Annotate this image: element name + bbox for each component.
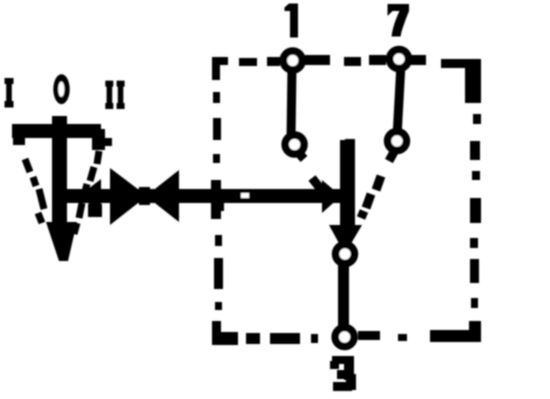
wire terminal 7 to fixed contact: [397, 64, 401, 137]
wire terminal 1 to fixed contact: [291, 66, 292, 140]
enclosure left edge dot: [213, 154, 220, 163]
lever position label I: [5, 78, 14, 108]
enclosure dash-dot box: top-left corner: [212, 57, 228, 80]
enclosure right edge dash: [470, 141, 480, 160]
contact 7 linkage dash: [376, 176, 381, 190]
lever S1 crossbar: [12, 124, 101, 138]
lever travel dashed line left: [25, 159, 44, 223]
terminal 7: [390, 50, 409, 69]
enclosure top edge dash at right corner: [441, 59, 468, 68]
lever S1 shaft: [52, 116, 67, 224]
contact 7 linkage dash: [366, 194, 371, 208]
enclosure top edge stub right of terminal 1: [305, 55, 330, 65]
enclosure left edge dot: [215, 302, 222, 310]
enclosure top edge dash: [239, 58, 257, 66]
enclosure top edge dot: [267, 57, 280, 66]
contact 1 linkage tail: [297, 151, 304, 159]
lever crossbar right end foot blob: [103, 138, 112, 146]
enclosure right edge dot: [471, 298, 478, 308]
enclosure dash-dot box: bottom-left corner: [212, 321, 238, 345]
lever position label II: [105, 81, 113, 109]
enclosure dash-dot box: top-right corner elbow: [465, 59, 481, 103]
contact 1 linkage dash: [312, 178, 323, 192]
enclosure right edge dash: [470, 259, 479, 283]
lever S1 arrowhead: [46, 222, 77, 261]
white scan notch in link wire: [241, 193, 249, 198]
terminal label 3: [330, 356, 356, 391]
link arrowhead pointing right at bridge end: [322, 180, 341, 213]
terminal 3: [335, 328, 354, 347]
contact 7 linkage dash: [361, 211, 364, 218]
enclosure right edge dot: [473, 114, 481, 124]
detent (latching) symbol right triangle: [146, 170, 179, 222]
enclosure bottom edge dot: [398, 334, 407, 341]
enclosure left edge dash: [214, 258, 223, 289]
enclosure left edge pedestal blob below link wire: [211, 202, 224, 211]
enclosure left edge dot: [213, 92, 220, 103]
contact bridge arrowhead: [329, 225, 362, 247]
enclosure bottom edge dash: [270, 333, 300, 344]
lever travel dashed line right: [74, 151, 99, 234]
wire pivot to terminal 3: [338, 262, 349, 330]
contact bridge bar: [340, 140, 355, 228]
terminal label 1: [285, 4, 299, 38]
enclosure left edge dot: [215, 235, 222, 246]
detent (latching) symbol left triangle: [110, 168, 147, 225]
enclosure right edge dot: [472, 171, 480, 180]
enclosure top edge stub right of terminal 7: [411, 55, 426, 65]
fixed contact of terminal 1: [285, 135, 304, 154]
enclosure right edge dash: [470, 198, 481, 223]
lever S1 crossbar left end tick: [13, 126, 25, 145]
contact bridge top notch: [345, 139, 355, 145]
terminal 1: [283, 51, 302, 70]
enclosure dash-dot box: bottom-right corner: [430, 321, 481, 342]
detent symbol center neck blob: [139, 187, 150, 205]
bridge pivot contact: [336, 245, 355, 264]
enclosure bottom edge dot: [311, 334, 318, 343]
enclosure top edge dash: [344, 57, 361, 66]
lever position label 0: [53, 74, 69, 104]
lever S1 crossbar right end tick: [92, 129, 105, 150]
mechanical link wire (lever to contact bridge): [62, 189, 341, 203]
contact 7 linkage tail: [389, 150, 395, 161]
link arrowhead pointing left at lever end: [79, 179, 101, 213]
fixed contact of terminal 7: [388, 132, 407, 151]
scan blob below link wire: [88, 204, 102, 217]
enclosure right edge dot: [470, 238, 478, 248]
terminal label 7: [388, 4, 410, 37]
enclosure left edge dash: [213, 118, 221, 140]
enclosure bottom edge dot: [246, 333, 260, 344]
enclosure left edge dash crossing link wire: [211, 180, 221, 219]
enclosure top edge stub left of terminal 7: [369, 55, 386, 65]
enclosure bottom edge stub right of terminal 3: [358, 331, 380, 340]
